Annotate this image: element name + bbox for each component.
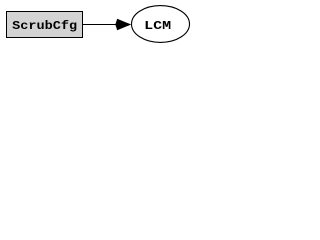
svg-text:LCM: LCM (144, 19, 171, 33)
node ScrubCfg (filled box) (7, 12, 83, 38)
arrowhead (115, 19, 131, 30)
svg-text:ScrubCfg: ScrubCfg (12, 19, 77, 33)
edge ScrubCfg->LCM (wire) (83, 24, 116, 26)
node LCM (ellipse) (132, 6, 190, 43)
